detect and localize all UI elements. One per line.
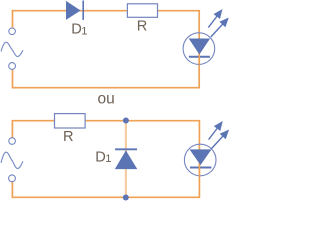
svg-text:R: R <box>137 18 148 34</box>
svg-text:1: 1 <box>105 153 111 165</box>
svg-text:R: R <box>63 129 74 145</box>
svg-text:D: D <box>71 21 82 37</box>
svg-text:1: 1 <box>81 25 87 37</box>
svg-text:ou: ou <box>98 90 115 107</box>
